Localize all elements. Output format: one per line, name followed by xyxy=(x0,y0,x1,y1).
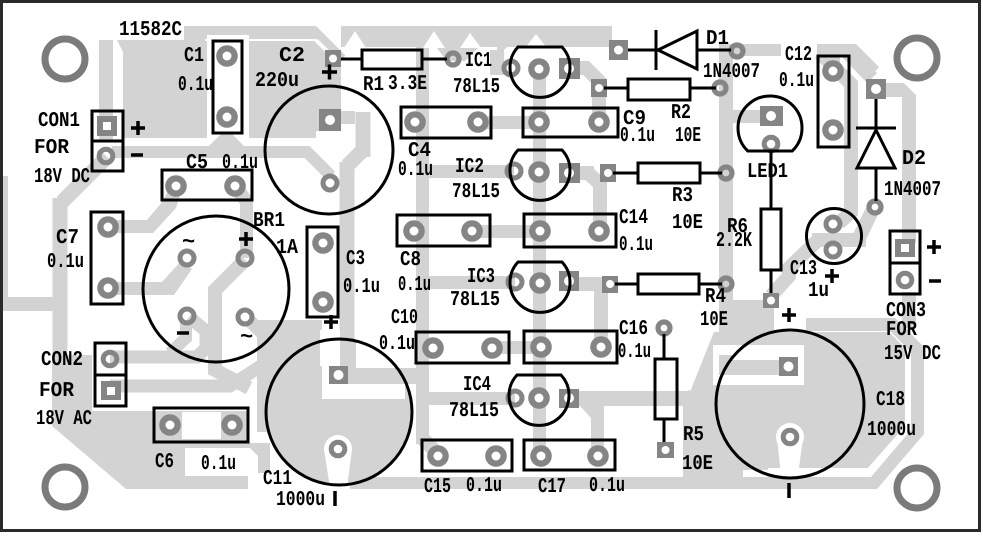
resistor R3 body xyxy=(638,163,700,183)
svg-text:IC3: IC3 xyxy=(467,266,495,289)
wire band diag into D2 pad xyxy=(845,50,872,78)
wire rail to IC3 in pad xyxy=(423,276,515,289)
pads C6 xyxy=(159,414,243,436)
wire IC2 out to R3 and C14 xyxy=(569,173,600,225)
svg-text:LED1: LED1 xyxy=(747,161,788,184)
capacitor C5 xyxy=(162,170,252,200)
pads R5 xyxy=(657,322,674,458)
wire D2 ring to C13 and R6 pad xyxy=(771,211,872,296)
pads C2 xyxy=(319,109,341,190)
wire R4 rail to C18 plus pad xyxy=(719,355,782,375)
svg-text:FOR: FOR xyxy=(886,319,917,342)
wire IC1 out to R2 and C9 xyxy=(569,68,599,116)
copper pour top-left block with band xyxy=(110,26,345,138)
svg-text:220u: 220u xyxy=(255,70,299,93)
copper pour bottom-left xyxy=(52,355,248,489)
svg-text:0.1u: 0.1u xyxy=(201,453,236,476)
wire C2 pad stub right xyxy=(338,111,355,124)
pads IC4 xyxy=(508,387,579,409)
pads C12 xyxy=(822,60,844,141)
svg-text:C8: C8 xyxy=(400,249,421,272)
capacitor C7 xyxy=(91,212,123,304)
svg-text:CON1: CON1 xyxy=(38,110,80,133)
pads CON3 xyxy=(895,239,915,287)
svg-text:C14: C14 xyxy=(619,207,648,230)
svg-text:0.1u: 0.1u xyxy=(620,125,655,148)
svg-text:R5: R5 xyxy=(683,424,704,447)
wire C7 bottom to BR1 tilde pad xyxy=(108,260,192,295)
svg-text:3.3E: 3.3E xyxy=(388,73,427,96)
svg-text:C7: C7 xyxy=(56,227,79,250)
wire rail to LED1 square pad xyxy=(730,110,762,123)
wire C11 plus band to rail xyxy=(346,368,429,384)
pads R2 xyxy=(591,79,726,97)
pads C13 xyxy=(826,217,840,257)
svg-text:1N4007: 1N4007 xyxy=(884,179,941,202)
wire CON2 ring to BR1 minus pad xyxy=(110,317,206,357)
svg-text:C17: C17 xyxy=(538,476,566,499)
svg-text:0.1u: 0.1u xyxy=(466,475,502,498)
wire C8 to C14 xyxy=(472,225,540,238)
svg-text:C1: C1 xyxy=(184,45,204,68)
pads C5 xyxy=(165,175,246,197)
svg-text:1u: 1u xyxy=(808,280,829,303)
svg-text:FOR: FOR xyxy=(34,137,69,160)
capacitor C12 xyxy=(818,56,849,147)
wire BR1 minus pad stub to band xyxy=(170,320,186,353)
pads C4 xyxy=(404,111,489,133)
svg-text:~: ~ xyxy=(182,230,195,255)
wire D1 to D2 band left segment xyxy=(731,44,781,56)
diode D1 xyxy=(628,30,731,70)
svg-text:0.1u: 0.1u xyxy=(398,159,433,182)
capacitor C9 xyxy=(523,108,618,137)
wire C1 bottom pad peak xyxy=(208,134,245,147)
C18 copper pour xyxy=(686,332,905,470)
pads R4 xyxy=(602,276,732,293)
svg-text:C6: C6 xyxy=(155,451,174,474)
wire top band to D1 xyxy=(341,26,612,47)
wire R3 leads xyxy=(613,172,722,175)
svg-text:0.1u: 0.1u xyxy=(779,70,814,93)
pads CON2 xyxy=(101,352,121,400)
C2 square pad bottom clearance xyxy=(316,131,344,139)
wire BR1 plus up to C5 right pad xyxy=(229,181,253,258)
wire R6 leads / LED lead xyxy=(770,151,773,293)
svg-text:1N4007: 1N4007 xyxy=(703,61,760,84)
wire C10 to C16 xyxy=(492,341,541,354)
capacitor C11 xyxy=(266,339,412,485)
mark C11 minus bar xyxy=(333,491,337,506)
svg-text:10E: 10E xyxy=(675,125,701,148)
svg-text:FOR: FOR xyxy=(39,380,74,403)
mark CON1 plus xyxy=(131,121,145,135)
diode D2 xyxy=(856,99,896,201)
hole top-left xyxy=(45,39,85,79)
svg-text:R3: R3 xyxy=(672,185,693,208)
pads CON1 xyxy=(97,116,117,163)
regulator IC3 xyxy=(510,262,570,312)
mark C3 plus xyxy=(324,315,338,329)
svg-text:1000u: 1000u xyxy=(867,419,916,442)
resistor R2 body xyxy=(628,79,690,100)
C11 top clearances xyxy=(320,330,340,366)
wire D1 branch to C13 xyxy=(820,53,851,223)
capacitor C3 xyxy=(307,227,338,317)
C1 clearance xyxy=(207,35,249,139)
pads C15 xyxy=(427,445,507,467)
svg-text:C15: C15 xyxy=(424,476,451,499)
svg-text:10E: 10E xyxy=(672,212,703,235)
connector CON1 xyxy=(92,111,123,141)
regulator IC1 xyxy=(510,47,570,97)
capacitor C15 xyxy=(422,440,512,471)
svg-text:18V AC: 18V AC xyxy=(36,408,92,431)
pads C18 xyxy=(779,357,798,444)
wire left-edge drop to CON1 plus xyxy=(99,30,113,141)
wire rail vertical C2/C4/C8/C10 xyxy=(416,40,429,444)
svg-text:CON2: CON2 xyxy=(41,349,83,372)
C18 bottom pad keyhole xyxy=(777,437,803,476)
wire diag to C17 right pad xyxy=(580,406,604,456)
LED LED1 xyxy=(738,96,802,151)
svg-text:IC2: IC2 xyxy=(455,156,484,179)
svg-text:C11: C11 xyxy=(263,468,292,491)
svg-text:C12: C12 xyxy=(785,44,812,67)
svg-text:D2: D2 xyxy=(902,148,926,171)
capacitor C18 xyxy=(716,330,864,478)
pads IC1 xyxy=(504,58,580,80)
mark BR1 minus xyxy=(177,331,189,335)
C6 label clearance xyxy=(185,448,258,476)
pads D2 xyxy=(866,79,886,213)
svg-text:R4: R4 xyxy=(705,286,726,309)
pads C9 xyxy=(528,111,610,133)
svg-text:0.1u: 0.1u xyxy=(619,234,653,257)
svg-text:IC1: IC1 xyxy=(465,50,492,73)
svg-text:C13: C13 xyxy=(790,258,817,281)
svg-text:1000u: 1000u xyxy=(276,489,325,512)
wire R4 leads xyxy=(615,283,722,286)
pads C8 xyxy=(403,220,483,242)
svg-text:0.1u: 0.1u xyxy=(398,274,431,297)
pads LED1 xyxy=(760,106,783,151)
wire stub band to R1 right pad xyxy=(436,47,479,61)
wire IC4 out band to C18 pour xyxy=(569,391,688,406)
svg-text:1A: 1A xyxy=(276,237,298,260)
hole bottom-left xyxy=(45,467,85,507)
hole bottom-right xyxy=(897,468,937,508)
bridge rectifier BR1 xyxy=(143,216,289,362)
capacitor C13 xyxy=(807,209,862,264)
svg-text:15V DC: 15V DC xyxy=(884,343,941,366)
svg-text:0.1u: 0.1u xyxy=(222,152,258,175)
capacitor C10 xyxy=(416,332,509,363)
white cutouts xyxy=(38,15,871,514)
svg-text:C5: C5 xyxy=(186,152,208,175)
mark BR1 plus xyxy=(239,232,253,246)
capacitor C8 xyxy=(397,215,490,246)
mark C2 plus xyxy=(322,65,337,80)
capacitor C14 xyxy=(524,214,616,247)
capacitor C16 xyxy=(524,331,617,363)
svg-text:0.1u: 0.1u xyxy=(618,341,651,364)
capacitor C17 xyxy=(524,440,615,470)
title notch xyxy=(99,15,184,40)
re-drawn traces over cutouts xyxy=(112,134,785,384)
pads IC2 xyxy=(507,161,580,183)
svg-text:C2: C2 xyxy=(279,45,305,68)
wire CON2 square pad to BR1 tilde pad xyxy=(110,320,267,386)
svg-text:0.1u: 0.1u xyxy=(379,333,415,356)
svg-text:C10: C10 xyxy=(391,307,418,330)
wire C2 plus down strip xyxy=(342,112,363,366)
svg-text:10E: 10E xyxy=(700,309,728,332)
svg-text:IC4: IC4 xyxy=(463,374,491,397)
wire R5 leads xyxy=(663,334,666,442)
mounting hole clearance bottom-left xyxy=(38,460,92,514)
wire R1 leads xyxy=(341,58,447,61)
C11 bottom pad keyhole xyxy=(324,449,352,488)
wire rail to IC2 in pad xyxy=(423,165,514,178)
svg-text:78L15: 78L15 xyxy=(450,289,500,312)
wire D2 pad to CON3 plus xyxy=(884,83,916,243)
svg-text:R1: R1 xyxy=(363,74,384,97)
wire C4 to C9 xyxy=(478,116,539,129)
pads R3 xyxy=(600,164,732,182)
pads C10 xyxy=(422,337,503,359)
connector CON3 xyxy=(890,231,920,263)
capacitor C1 xyxy=(213,41,242,133)
pads C1 xyxy=(216,45,238,128)
pads C11 xyxy=(329,366,348,456)
capacitor C6 xyxy=(154,408,248,442)
mark CON3 minus xyxy=(929,279,941,283)
svg-text:0.1u: 0.1u xyxy=(178,74,213,97)
pads D1 xyxy=(609,40,743,60)
wire R2 leads xyxy=(604,87,716,90)
pads IC3 xyxy=(508,271,579,294)
wire C7 top to C5 left pad xyxy=(108,186,182,233)
connector CON2 xyxy=(95,343,126,375)
ground strip around C18 xyxy=(350,318,924,489)
wire board-left edge trace xyxy=(0,176,64,311)
wire band diag to IC1 in pad xyxy=(490,38,516,75)
resistor R1 body xyxy=(362,50,422,69)
svg-text:0.1u: 0.1u xyxy=(343,276,380,299)
mark CON1 minus xyxy=(131,153,143,157)
resistor R6 body xyxy=(761,209,781,270)
svg-text:BR1: BR1 xyxy=(253,210,285,233)
regulator IC4 xyxy=(509,375,569,425)
pads C7 xyxy=(97,216,119,299)
pads C17 xyxy=(530,445,609,467)
wire BR1 plus down to C11 area xyxy=(215,260,249,388)
svg-text:78L15: 78L15 xyxy=(452,181,500,204)
capacitor C4 xyxy=(401,107,491,138)
C18 slot xyxy=(713,345,804,385)
mark C18 minus bar xyxy=(787,483,791,498)
svg-text:11582C: 11582C xyxy=(119,19,182,42)
pads C3 xyxy=(312,232,334,313)
C11 copper pour xyxy=(257,320,322,432)
wire C12 top pad stub xyxy=(826,44,840,71)
hole top-right xyxy=(897,38,937,78)
svg-text:10E: 10E xyxy=(682,453,713,476)
pads C14 xyxy=(529,220,610,242)
pads R6 xyxy=(763,293,779,308)
svg-text:C18: C18 xyxy=(876,389,905,412)
wire D1 to D2 band right segment xyxy=(817,44,879,77)
wire CON3 minus to ground strip xyxy=(902,292,916,328)
wire regulator mid rail vertical xyxy=(533,63,546,456)
resistor R5 body xyxy=(655,359,677,419)
pads BR1 xyxy=(180,251,252,324)
wire IC3 out to R4 and C16 xyxy=(569,284,610,341)
wire D1 rail down R2 R3 R4 xyxy=(719,44,733,364)
svg-text:C16: C16 xyxy=(619,318,648,341)
capacitor C2 xyxy=(265,86,393,214)
resistor R4 body xyxy=(638,274,699,294)
mark CON3 plus xyxy=(927,240,941,254)
svg-text:0.1u: 0.1u xyxy=(589,475,625,498)
mark C13 plus xyxy=(825,269,839,283)
wire CON1 minus down left xyxy=(60,157,107,360)
svg-text:78L15: 78L15 xyxy=(449,400,499,423)
pads R1 xyxy=(325,50,459,67)
svg-text:78L15: 78L15 xyxy=(453,76,500,99)
pads C16 xyxy=(530,336,612,358)
svg-text:R2: R2 xyxy=(671,102,691,125)
svg-text:18V DC: 18V DC xyxy=(34,166,90,189)
wire CON1 minus band to C2 bottom pad xyxy=(112,152,331,176)
svg-text:~: ~ xyxy=(240,325,253,350)
wire C18 slot feed xyxy=(719,355,785,375)
wire rail to IC4 in pad xyxy=(423,392,515,405)
wire rail to C15 left pad xyxy=(422,438,438,454)
band chevron notches xyxy=(344,31,366,48)
svg-text:C3: C3 xyxy=(346,248,365,271)
svg-text:0.1u: 0.1u xyxy=(47,251,84,274)
C6 interior clearance xyxy=(182,412,221,439)
svg-text:2.2K: 2.2K xyxy=(716,230,752,253)
svg-text:D1: D1 xyxy=(706,28,729,51)
mark C18 plus xyxy=(782,308,796,322)
regulator IC2 xyxy=(510,150,570,200)
